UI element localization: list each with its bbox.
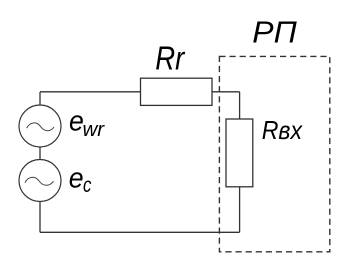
svg-text:Rr: Rr [155,40,186,77]
resistor Rr [141,78,213,105]
svg-text:Rвх: Rвх [262,117,304,146]
wire down from corner to resistor Rvx top terminal [239,92,241,119]
wire top rail to resistor Rr left terminal [40,91,141,93]
wire between source E1 and source E2 [39,147,41,160]
wire resistor Rr right terminal to node corner [212,91,240,93]
svg-text:c: c [83,174,92,197]
resistor Rvx [226,119,253,187]
dashed box RP enclosure [219,56,329,251]
ac source E1 sine symbol [27,123,54,131]
wire from bottom rail up to source E2 bottom [39,202,41,233]
ac source E2 (e_c) circle [19,160,61,202]
svg-text:e: e [69,162,84,194]
wire resistor Rvx bottom terminal down [239,187,241,233]
wire from source E1 top to upper-left corner [39,92,41,105]
svg-text:wr: wr [83,118,106,141]
bottom wire rail [40,231,240,233]
ac source E2 sine symbol [25,177,54,185]
svg-text:РП: РП [252,15,297,49]
ac source E1 (e_wr) circle [19,105,61,147]
